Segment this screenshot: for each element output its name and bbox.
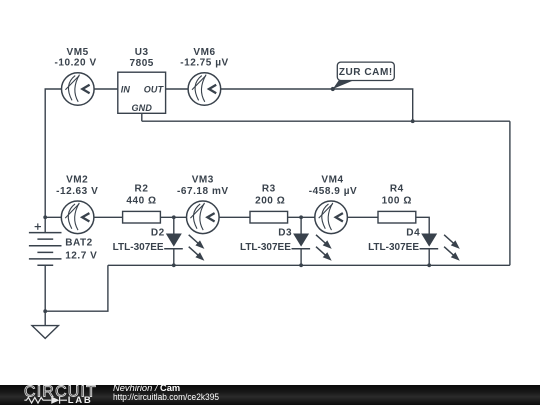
wire VM4 right lead to R4 <box>347 216 378 218</box>
battery plus sign <box>35 223 41 229</box>
wire battery positive stub <box>44 217 46 232</box>
wire top-left from VM5 to left rail and down to battery node <box>45 89 61 217</box>
wire right rail down <box>509 121 511 265</box>
node ground junction <box>43 309 47 313</box>
svg-text:LAB: LAB <box>68 395 93 405</box>
wire VM3 right lead to R3 <box>219 216 250 218</box>
wire battery node to VM2 left lead <box>45 216 61 218</box>
voltmeter VM3 <box>187 201 220 234</box>
resistor R2 <box>123 211 161 223</box>
wire R2 right to node and VM3 left lead <box>160 216 186 218</box>
LED D4 <box>420 234 460 261</box>
footer bar <box>0 385 540 405</box>
node flag ZUR CAM! <box>331 62 395 91</box>
wire U3 OUT pin to VM6 left lead <box>166 88 189 90</box>
voltmeter VM2 <box>61 201 94 234</box>
resistor R4 <box>378 211 416 223</box>
wire R3 right to node and VM4 left lead <box>288 216 315 218</box>
wire bottom rail <box>108 264 510 266</box>
resistor R3 <box>250 211 288 223</box>
wire D4 cathode to bottom rail <box>428 249 430 266</box>
node R2/D2 junction <box>172 215 176 219</box>
wire VM2 right lead to R2 <box>94 216 123 218</box>
wire GND rail horizontal <box>142 120 510 122</box>
wire VM6 right lead to corner and down to GND rail <box>221 89 413 121</box>
voltmeter VM5 <box>62 73 95 106</box>
ground <box>32 326 58 339</box>
wire return to battery negative <box>45 265 108 311</box>
wire U3 GND pin down <box>141 113 143 121</box>
op-amp U1 regulator box U3 7805 <box>118 72 166 113</box>
battery BAT2 <box>29 233 62 266</box>
wire VM5 right lead to U3 IN pin <box>94 88 118 90</box>
wire D3 cathode to bottom rail <box>300 249 302 266</box>
voltmeter VM4 <box>315 201 348 234</box>
node battery top junction <box>43 215 47 219</box>
logo squiggle resistor/diode <box>24 397 67 404</box>
wire D2 cathode to bottom rail <box>173 249 175 266</box>
wire battery negative stub down to ground node <box>44 265 46 311</box>
wire ground stub <box>44 311 46 325</box>
voltmeter VM6 <box>188 73 221 106</box>
LED D2 <box>164 234 204 261</box>
wire R4 right lead corner down to D4 <box>416 217 429 233</box>
svg-text:http://circuitlab.com/ce2k395: http://circuitlab.com/ce2k395 <box>113 392 219 402</box>
node D3 cathode junction <box>299 263 303 267</box>
node GND rail junction <box>411 119 415 123</box>
LED D3 <box>292 234 332 261</box>
node R3/D3 junction <box>299 215 303 219</box>
wire node to D2 anode <box>173 217 175 233</box>
wire node to D3 anode <box>300 217 302 233</box>
node D4 cathode junction <box>427 263 431 267</box>
node D2 cathode junction <box>172 263 176 267</box>
